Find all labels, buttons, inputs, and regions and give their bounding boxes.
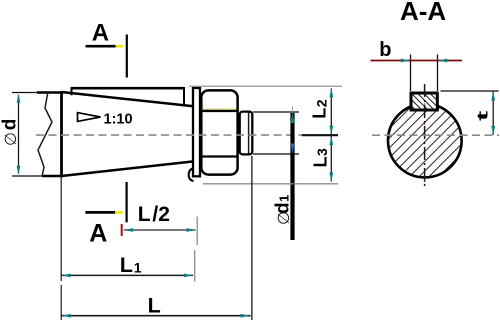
keyway key cross-section — [411, 93, 437, 110]
svg-text:1:10: 1:10 — [104, 112, 133, 128]
extension line thread end down — [251, 156, 253, 320]
washer — [189, 88, 200, 181]
svg-text:b: b — [379, 39, 391, 61]
svg-text:∅: ∅ — [276, 211, 293, 225]
extension line shoulder down — [60, 177, 62, 320]
dimension L3 — [329, 136, 333, 182]
dimension L — [62, 294, 251, 318]
centerline accent dots — [293, 103, 426, 185]
dimension d1 line — [291, 107, 295, 241]
svg-text:A-A: A-A — [400, 0, 446, 26]
extension lines for diameter d — [12, 93, 42, 177]
taper symbol — [78, 113, 101, 122]
break line — [38, 92, 52, 177]
section circle hatch — [389, 105, 461, 177]
label diameter d — [0, 119, 21, 146]
svg-text:1: 1 — [134, 259, 142, 275]
dimension L/2 — [122, 203, 198, 245]
svg-text:A: A — [89, 220, 107, 248]
label L2 — [310, 99, 330, 119]
taper cone — [62, 92, 194, 176]
section circle outline — [388, 104, 462, 178]
vertical centerline section — [424, 84, 426, 187]
extension lines b — [411, 55, 438, 92]
svg-text:L /2: L /2 — [138, 203, 170, 226]
svg-text:1: 1 — [276, 195, 291, 202]
svg-text:A: A — [92, 19, 109, 46]
svg-text:L: L — [310, 108, 330, 119]
svg-text:L: L — [310, 157, 330, 168]
section marker A top — [86, 19, 127, 77]
svg-text:∅: ∅ — [3, 132, 20, 146]
horizontal centerline section — [372, 134, 499, 136]
svg-text:2: 2 — [313, 99, 329, 107]
dimension L1 — [62, 250, 195, 282]
dimension t — [491, 91, 495, 135]
shaft cylinder — [37, 93, 63, 177]
label diameter d1 — [272, 195, 293, 225]
hex nut — [201, 90, 237, 174]
extension line bottom for L3 — [203, 183, 338, 185]
extension line from key top — [189, 85, 342, 87]
dimension L2 — [329, 88, 333, 135]
dimension d line — [17, 94, 21, 176]
svg-text:3: 3 — [314, 148, 330, 156]
shoulder — [60, 91, 63, 177]
svg-text:t: t — [475, 111, 491, 121]
svg-text:d: d — [0, 119, 21, 131]
label t — [475, 111, 491, 121]
extension lines d1 — [253, 112, 299, 154]
svg-text:L: L — [120, 253, 133, 277]
label L3 — [310, 148, 330, 168]
thread end — [240, 112, 253, 155]
extension line keyway depth — [441, 90, 499, 92]
section marker A bottom — [85, 182, 126, 248]
centerline main view — [36, 134, 338, 136]
svg-text:L: L — [148, 294, 161, 318]
dimension b — [371, 39, 463, 62]
key — [72, 87, 185, 105]
